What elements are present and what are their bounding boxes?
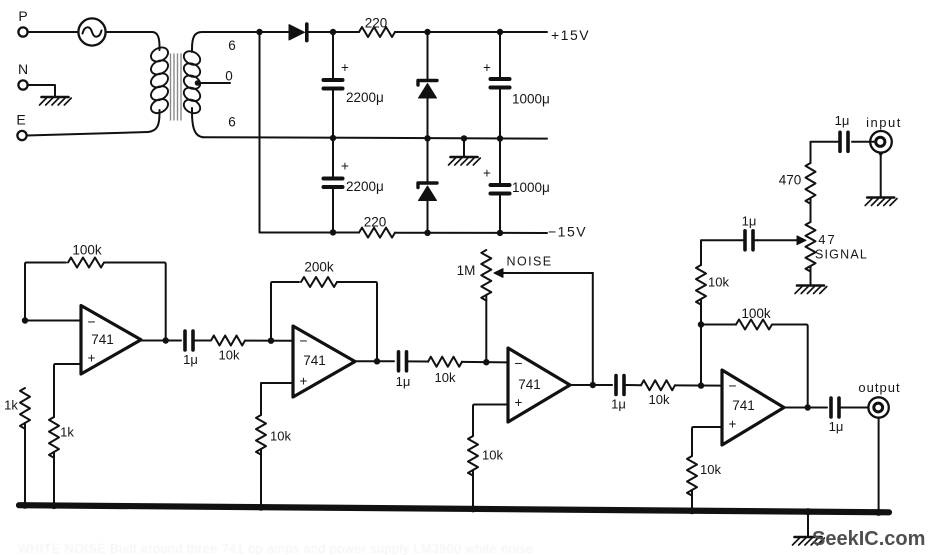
svg-text:1k: 1k <box>60 425 74 440</box>
wire R8 to rail <box>472 470 474 509</box>
resistor R6 10k <box>256 415 291 455</box>
noise wiper arrow <box>494 269 593 278</box>
svg-text:741: 741 <box>303 353 326 368</box>
svg-text:−: − <box>514 355 522 371</box>
zener D3 <box>418 138 437 232</box>
wire E to transformer <box>27 132 148 136</box>
capacitor C3 1u <box>611 376 626 412</box>
node diode cathode junction <box>330 29 336 35</box>
jack output J2 <box>858 380 900 418</box>
svg-text:NOISE: NOISE <box>507 255 553 269</box>
svg-text:100k: 100k <box>72 243 102 258</box>
resistor 220 top <box>333 16 428 38</box>
resistor R1 100k <box>68 243 104 268</box>
svg-text:N: N <box>18 61 28 77</box>
op-amp U3 <box>508 348 570 422</box>
wire C1 to R4 <box>193 340 210 342</box>
svg-text:output: output <box>858 380 900 395</box>
ground power supply <box>449 138 481 165</box>
node rail R3 <box>51 502 58 509</box>
op-amp U1 <box>81 306 141 375</box>
svg-text:−: − <box>299 333 307 349</box>
capacitor 2200u lower <box>324 138 384 232</box>
label 6 secondary top <box>228 38 236 53</box>
wire R11 to rail <box>691 490 693 511</box>
svg-text:2200μ: 2200μ <box>346 179 384 194</box>
wire R4 to op2 <box>245 340 293 342</box>
wire cap C4 to pot arrow <box>753 239 758 241</box>
svg-text:1μ: 1μ <box>742 214 757 229</box>
node top rail junction <box>256 29 262 35</box>
node zener mid junction <box>424 135 430 141</box>
wire pot to ground <box>810 266 812 285</box>
wire feedback4 right <box>772 325 808 408</box>
wire feedback2 right <box>337 282 377 361</box>
node op2 output <box>374 358 380 364</box>
wire AC source to transformer <box>106 31 152 33</box>
node op2 inverting input <box>268 338 274 344</box>
zener D2 <box>418 32 437 138</box>
wire op4 output <box>784 407 827 409</box>
ground below pot <box>795 286 827 294</box>
svg-text:+: + <box>483 166 491 181</box>
label NOISE <box>507 255 553 269</box>
node op3 inverting input <box>483 359 489 365</box>
node rail R2 <box>22 502 29 509</box>
diode D1 <box>262 24 333 41</box>
caption <box>18 542 534 555</box>
resistor R2 1k <box>4 388 30 429</box>
center tap 0 <box>195 69 233 86</box>
resistor R8 10k <box>468 436 503 476</box>
wire noise arrow to op3 output <box>592 273 594 385</box>
node rail R6 <box>258 504 265 511</box>
resistor 470 <box>779 163 816 204</box>
wire 10k down to feedback node <box>700 299 702 325</box>
svg-text:200k: 200k <box>304 260 334 275</box>
node rail jack <box>875 509 882 516</box>
potentiometer 47 SIGNAL <box>806 222 869 272</box>
wire op3 output <box>570 384 612 386</box>
wire R2 to rail <box>24 423 26 507</box>
op-amp U4 <box>722 370 784 445</box>
svg-text:1μ: 1μ <box>829 419 844 434</box>
label 6 secondary bottom <box>228 115 236 130</box>
ground at N <box>40 97 72 105</box>
svg-text:10k: 10k <box>700 462 721 477</box>
terminal E <box>16 112 26 141</box>
node op1 inverting input <box>22 317 28 323</box>
resistor R7 10k <box>428 357 462 385</box>
wire down to op4 input node <box>700 325 702 386</box>
resistor R3 1k <box>49 417 74 458</box>
wire C6 to jack <box>839 407 868 409</box>
wire op4 noninverting <box>692 427 722 456</box>
svg-text:WHITE NOISE Built around thre: WHITE NOISE Built around three 741 op am… <box>18 542 534 555</box>
wire op2 output <box>355 360 394 362</box>
node zener top junction <box>424 29 430 35</box>
node mid rail cap junction <box>330 135 336 141</box>
terminal P <box>18 8 27 37</box>
node op4 inverting input <box>698 382 704 388</box>
wire R3 to rail <box>53 452 55 507</box>
svg-text:470: 470 <box>779 173 802 188</box>
label +15V <box>551 27 590 43</box>
capacitor 1000u upper <box>483 32 550 138</box>
svg-text:741: 741 <box>91 332 114 347</box>
svg-text:741: 741 <box>732 398 755 413</box>
wire feedback left <box>25 263 66 321</box>
resistor 10k input chain <box>696 265 729 305</box>
wire feedback2 up <box>271 282 299 341</box>
node op3 output <box>590 382 596 388</box>
svg-text:+: + <box>483 60 491 75</box>
capacitor 1000u lower <box>483 139 550 233</box>
wire P to AC source <box>28 31 79 33</box>
svg-text:P: P <box>18 8 27 24</box>
svg-text:6: 6 <box>228 38 236 53</box>
svg-text:220: 220 <box>364 215 387 230</box>
svg-text:1μ: 1μ <box>183 352 198 367</box>
svg-text:100k: 100k <box>741 306 771 321</box>
svg-text:+: + <box>729 417 737 432</box>
capacitor C1 1u <box>183 331 198 367</box>
wire minus rail left <box>260 231 360 233</box>
resistor R11 10k <box>687 456 721 496</box>
wire C3 to R9 <box>624 384 641 386</box>
wire op1 output <box>141 340 181 342</box>
svg-text:+: + <box>341 159 349 174</box>
resistor 220 bottom <box>359 215 547 238</box>
svg-text:1k: 1k <box>4 398 18 413</box>
svg-text:input: input <box>866 115 902 130</box>
wire feedback4 left <box>701 324 736 326</box>
svg-text:+: + <box>300 374 308 389</box>
svg-text:+: + <box>515 395 523 410</box>
svg-text:2200μ: 2200μ <box>346 90 384 105</box>
node minus rail cap junction <box>330 229 336 235</box>
potentiometer 1M <box>457 250 492 301</box>
jack input J1 <box>866 115 902 153</box>
op-amp U2 <box>293 326 355 397</box>
wire feedback right <box>104 263 166 341</box>
wire to +15V <box>500 31 547 33</box>
ground below jack <box>865 198 897 206</box>
svg-text:1M: 1M <box>457 263 476 278</box>
resistor R4 10k <box>211 336 245 363</box>
svg-text:47: 47 <box>818 232 836 247</box>
svg-text:−: − <box>87 314 95 330</box>
wire R7 to op3 <box>462 361 508 364</box>
wire jack to cap <box>852 141 876 143</box>
wire C2 to R7 <box>407 360 429 362</box>
svg-text:−: − <box>728 378 736 394</box>
svg-text:1μ: 1μ <box>396 374 411 389</box>
node zener bottom junction <box>424 230 430 236</box>
wire R6 to rail <box>260 449 262 508</box>
svg-text:+: + <box>88 351 96 366</box>
svg-text:1μ: 1μ <box>611 397 626 412</box>
wire cap to 470 <box>811 142 841 163</box>
wire op2 noninverting <box>261 383 293 415</box>
wire vertical to minus rail <box>259 32 261 231</box>
ground below rail <box>793 512 825 545</box>
svg-text:10k: 10k <box>708 275 729 290</box>
svg-text:220: 220 <box>365 16 388 31</box>
node 1000u bottom junction <box>497 230 503 236</box>
svg-text:1000μ: 1000μ <box>512 180 550 195</box>
wire middle rail <box>203 137 547 138</box>
svg-text:SIGNAL: SIGNAL <box>815 248 868 262</box>
svg-text:10k: 10k <box>482 448 503 463</box>
wire 470 to pot <box>810 198 812 222</box>
node feedback tap <box>698 321 704 327</box>
svg-text:1000μ: 1000μ <box>512 92 550 107</box>
node op4 output <box>805 404 811 410</box>
wire R9 to op4 <box>675 384 722 386</box>
capacitor C4 1u signal <box>742 214 757 250</box>
node 1000u mid junction <box>497 135 503 141</box>
svg-text:+: + <box>341 60 349 75</box>
wire top rail to cap <box>428 31 501 33</box>
node ground tap <box>461 135 467 141</box>
capacitor C2 1u <box>396 352 411 389</box>
capacitor C5 1u <box>835 113 850 151</box>
svg-text:10k: 10k <box>649 392 670 407</box>
resistor R10 100k <box>736 306 772 330</box>
svg-text:0: 0 <box>225 69 233 84</box>
node rail R11 <box>689 507 696 514</box>
wire jack to rail <box>878 418 880 513</box>
wire pot 1M lead <box>485 295 487 362</box>
capacitor 2200u upper <box>324 32 384 138</box>
transformer T1 <box>148 32 203 137</box>
wire op3 noninverting <box>473 405 508 437</box>
wire secondary top to rail <box>202 31 259 33</box>
svg-text:−15V: −15V <box>548 224 587 240</box>
svg-text:10k: 10k <box>270 429 291 444</box>
resistor R9 10k <box>641 380 675 407</box>
svg-text:10k: 10k <box>219 348 240 363</box>
svg-text:1μ: 1μ <box>835 113 850 128</box>
wire jack to ground <box>878 153 883 197</box>
node rail R8 <box>470 506 477 513</box>
ground rail <box>19 505 889 512</box>
wire N to ground <box>28 85 55 97</box>
node rail ground <box>804 508 811 515</box>
svg-text:6: 6 <box>228 115 236 130</box>
svg-text:10k: 10k <box>435 370 456 385</box>
label -15V <box>548 224 587 240</box>
capacitor C6 1u <box>829 398 844 434</box>
watermark <box>812 528 925 550</box>
svg-text:+15V: +15V <box>551 27 590 43</box>
wire to op1 inverting input <box>25 320 81 322</box>
svg-text:SeekIC.com: SeekIC.com <box>812 528 925 550</box>
wire cap C4 left and down <box>701 240 745 265</box>
node 1000u top junction <box>497 29 503 35</box>
resistor R5 200k <box>301 260 337 288</box>
terminal N <box>18 61 28 90</box>
svg-text:E: E <box>16 112 25 128</box>
node op1 output <box>163 337 169 343</box>
wiper arrow <box>758 236 807 245</box>
wire op1 noninverting <box>54 364 81 417</box>
svg-text:741: 741 <box>518 377 541 392</box>
AC source <box>78 18 105 45</box>
